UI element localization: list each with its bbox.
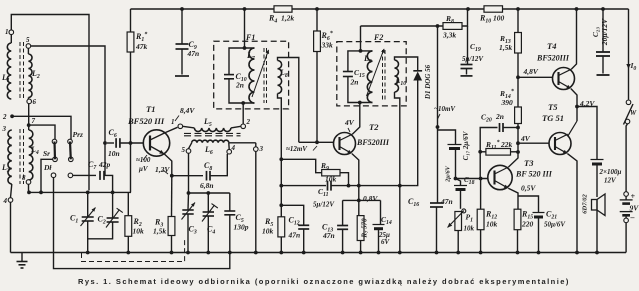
wire: C8 right up to pin 4	[210, 154, 227, 176]
svg-text:4,8V: 4,8V	[523, 67, 539, 76]
wire: T3 collector up to bias chain / emitter down to R15	[509, 155, 519, 167]
wire: T4 emitter to T5 collector	[571, 89, 577, 121]
svg-text:1: 1	[171, 118, 175, 126]
capacitor C12 47n	[281, 205, 303, 225]
wire: C13/C14 line	[343, 199, 381, 201]
resistor R12 10k	[479, 177, 483, 181]
svg-text:BF 520 III: BF 520 III	[515, 170, 553, 179]
svg-text:4: 4	[3, 197, 8, 205]
wire: L8 top out to T2 base	[278, 58, 299, 143]
svg-text:33k: 33k	[321, 41, 334, 50]
core L1/L2 (dashed)	[19, 42, 21, 100]
coil L5	[183, 126, 195, 128]
wire: C6 to T1 base	[120, 142, 143, 144]
svg-text:C₂₃: C₂₃	[591, 27, 600, 38]
tuning arrow F1	[252, 50, 269, 97]
svg-text:1,2k: 1,2k	[281, 14, 294, 23]
core L9/L10 (dashed)	[382, 50, 384, 101]
capacitor C9 47n	[181, 9, 183, 44]
capacitor C11 5u/12V (in AGC line)	[327, 181, 329, 191]
wire: osc tank line y=193	[189, 192, 230, 194]
wire: T5 emitter to ground	[567, 154, 577, 253]
svg-text:10k: 10k	[133, 227, 145, 236]
wire: F1 tank bottom to pin 2	[242, 103, 244, 124]
capacitor C19 5u/12V	[467, 26, 469, 65]
trimmer capacitor C2	[112, 192, 114, 218]
svg-text:130p: 130p	[234, 223, 249, 232]
svg-text:50μ/6V: 50μ/6V	[544, 221, 566, 229]
wire: right edge drop from rail	[628, 9, 630, 100]
terminal pin 4 (tap) of L6	[228, 143, 230, 150]
svg-text:47n: 47n	[322, 231, 335, 240]
current arrow I0	[626, 64, 630, 69]
wire: R8 node down into F2	[360, 26, 362, 51]
switch Prz lever	[69, 142, 72, 160]
svg-text:5μ/12V: 5μ/12V	[462, 55, 484, 63]
coil L6	[192, 140, 229, 143]
svg-text:C₁₇ 2μ/6V: C₁₇ 2μ/6V	[462, 130, 470, 160]
svg-text:6V: 6V	[381, 238, 391, 246]
resistor R9 10k	[281, 159, 321, 172]
svg-text:BF520III: BF520III	[536, 54, 570, 63]
variable capacitor C1	[87, 192, 89, 217]
svg-text:42p: 42p	[98, 160, 111, 169]
node: T3 base tap	[454, 177, 458, 181]
svg-text:F2: F2	[373, 33, 383, 42]
svg-text:3,3k: 3,3k	[442, 31, 456, 40]
wire: R6 bottom to T2 base wire	[316, 52, 318, 143]
wire: top-left horizontal to L1	[11, 15, 89, 191]
svg-text:TG 51: TG 51	[542, 113, 564, 123]
svg-text:≈12mV: ≈12mV	[286, 145, 308, 153]
svg-text:2×100μ: 2×100μ	[599, 168, 622, 176]
diode D1 DOG56	[413, 70, 422, 72]
wire: R8 right up to rail	[462, 9, 468, 26]
svg-text:~10mV: ~10mV	[434, 105, 456, 113]
svg-text:20μ/12V: 20μ/12V	[600, 18, 609, 46]
wire: Sr pole to tank line	[41, 159, 53, 192]
svg-text:Prz: Prz	[73, 130, 84, 139]
coil L1	[10, 35, 12, 44]
svg-text:Rys. 1. Schemat ideowy odbi: Rys. 1. Schemat ideowy odbiornika (oporn…	[78, 277, 570, 286]
node 7 + wire to Sr	[27, 123, 31, 127]
svg-text:10k: 10k	[486, 220, 498, 229]
terminal pin 2 of L5	[241, 124, 246, 129]
wire: Dl contact detour below ground rail	[54, 178, 230, 269]
svg-text:47n: 47n	[187, 49, 200, 58]
wire: T2 collector to F2	[352, 103, 360, 135]
svg-text:5: 5	[26, 36, 30, 44]
svg-text:2: 2	[246, 118, 251, 126]
tuning arrow F2	[367, 49, 385, 96]
resistor R3 1,5k	[168, 217, 175, 236]
wire: T3 base	[456, 178, 488, 180]
svg-text:220: 220	[521, 220, 534, 229]
wire: top supply rail	[131, 8, 275, 10]
resistor R4 1,2k (in top rail)	[274, 6, 292, 12]
svg-text:10n: 10n	[108, 149, 120, 158]
svg-text:10k: 10k	[325, 175, 337, 184]
svg-text:3: 3	[259, 145, 264, 153]
wire: C18 to potentiometer P1	[460, 190, 462, 209]
capacitor C6 10n	[107, 142, 114, 144]
core L5/L6 (dashed)	[184, 132, 241, 134]
svg-text:47n: 47n	[288, 231, 301, 240]
node: C6-left tee on x=105	[103, 141, 107, 145]
transistor T2 BF520III	[334, 133, 356, 155]
wire: 6 to 7	[28, 104, 30, 130]
wire: Prz bottom to C7	[73, 174, 96, 176]
terminal 1	[9, 30, 14, 35]
wire: speaker to ground	[596, 210, 598, 253]
svg-text:10k: 10k	[262, 227, 274, 236]
loudspeaker 6D7/02	[592, 200, 598, 211]
capacitor C8 6,8n	[206, 171, 208, 181]
svg-text:12V: 12V	[604, 177, 617, 185]
coil L7	[249, 48, 255, 103]
wire: emitter node to C8	[172, 175, 203, 177]
ground rail (bottom)	[11, 252, 627, 254]
capacitor C23 20u/12V	[602, 9, 604, 52]
svg-text:1,2V: 1,2V	[155, 165, 170, 174]
transistor T1 BF520III	[143, 130, 169, 156]
wire: T4 base	[518, 76, 553, 78]
capacitor C17 2u/6V	[448, 144, 462, 146]
wire: R8 feed line y=26	[361, 25, 444, 27]
potentiometer P1 10k	[462, 209, 466, 213]
svg-text:D1 DOG 56: D1 DOG 56	[424, 64, 432, 100]
resistor R7 570 (vertical, rotated label)	[357, 216, 364, 241]
svg-text:1,5k: 1,5k	[499, 43, 512, 52]
wire: L8 bottom down	[278, 94, 282, 217]
capacitor C20 2n	[480, 128, 497, 152]
capacitor C14 25u/6V	[380, 200, 382, 224]
svg-text:R₇ 570: R₇ 570	[361, 218, 369, 239]
wire: T5 base	[518, 142, 549, 144]
capacitor C5 130p	[229, 193, 231, 211]
filter block F2 (dashed box)	[337, 42, 406, 106]
svg-text:6,8n: 6,8n	[200, 181, 214, 190]
core L3/L4 (dashed)	[19, 129, 21, 184]
svg-text:T5: T5	[548, 102, 558, 112]
wire: L10 top to D1	[395, 57, 418, 70]
mechanical gang link (dashed)	[82, 240, 185, 262]
filter block F1 (dashed box)	[214, 41, 289, 109]
wire: chain down from R13	[517, 53, 519, 107]
coil L3	[8, 130, 12, 184]
capacitor C21 50u/6V	[518, 196, 539, 213]
terminal pin 3	[255, 143, 257, 147]
terminal pin 5 of L6	[189, 143, 192, 149]
svg-text:Sr: Sr	[43, 149, 50, 158]
svg-text:100: 100	[493, 14, 505, 23]
coil L8	[278, 61, 282, 94]
svg-text:4V: 4V	[344, 118, 355, 127]
svg-text:2n: 2n	[350, 78, 359, 87]
svg-text:2μ/6V: 2μ/6V	[445, 165, 452, 183]
terminal 8 + drop to tank line	[26, 180, 31, 185]
svg-text:5: 5	[182, 146, 186, 154]
wire: T1 emitter down	[164, 154, 172, 176]
svg-text:6D7/02: 6D7/02	[582, 194, 589, 214]
svg-text:W: W	[630, 109, 637, 117]
resistor R11* 22k	[478, 150, 482, 154]
AGC line y=185.6	[281, 185, 326, 187]
resistor R15 220	[514, 209, 521, 230]
capacitor C13 47n	[342, 200, 344, 225]
capacitor C15 2n	[343, 71, 353, 73]
switch W	[626, 100, 631, 105]
svg-text:2n: 2n	[235, 81, 244, 90]
wire: rail to F1 tank top	[244, 9, 246, 48]
svg-text:8: 8	[22, 174, 26, 182]
core L7/L8 (dashed)	[263, 48, 265, 103]
resistor R2 10k	[125, 216, 132, 237]
svg-text:BF520 III: BF520 III	[127, 116, 165, 126]
coil L9	[367, 51, 372, 103]
svg-text:1,5k: 1,5k	[153, 227, 166, 236]
terminal 5 and wire to x=105 drop	[26, 44, 31, 49]
transistor T4 BF520III	[553, 68, 575, 90]
svg-text:Dł: Dł	[43, 163, 52, 172]
capacitor 2x100u/12V (coupling)	[591, 159, 604, 161]
svg-text:T1: T1	[146, 104, 155, 114]
capacitor C7 42p	[99, 171, 101, 180]
wire: D1 down to AGC line	[416, 81, 418, 186]
wire: output node to coupling cap	[577, 107, 597, 160]
svg-text:2n: 2n	[495, 112, 504, 121]
wire: R1 bottom to base node and down to tank line	[130, 52, 132, 192]
wire: battery to ground rail	[625, 223, 627, 253]
wire: switch to battery	[626, 124, 627, 192]
capacitor C10 2n	[224, 74, 234, 76]
svg-text:47k: 47k	[135, 42, 148, 51]
svg-text:–: –	[630, 213, 635, 222]
svg-text:T2: T2	[369, 122, 379, 132]
coil L2	[27, 48, 29, 54]
svg-text:BF520III: BF520III	[356, 138, 390, 147]
wire: T4 collector to rail	[571, 9, 576, 69]
svg-text:4V: 4V	[520, 134, 531, 143]
wire: tee to C17/C18 chain	[438, 130, 456, 145]
node: rail junctions	[180, 7, 184, 11]
F2 tank loop	[348, 51, 373, 72]
svg-text:22k: 22k	[500, 140, 513, 149]
switch Sr lever	[53, 142, 56, 160]
resistor R8 3,3k	[443, 23, 462, 30]
wire: antenna tank line y=192.4	[29, 191, 132, 193]
resistor R6* 33k	[316, 9, 318, 31]
switch Prz : contacts	[68, 139, 73, 144]
battery 9V	[624, 192, 629, 197]
coil L10	[395, 60, 399, 92]
svg-text:μV: μV	[138, 165, 149, 173]
capacitor C16 47n	[430, 202, 443, 204]
svg-text:F1: F1	[245, 33, 255, 42]
svg-text:390: 390	[501, 98, 514, 107]
svg-text:2: 2	[2, 113, 7, 121]
svg-text:47n: 47n	[440, 197, 453, 206]
wire: T2 emitter down	[352, 154, 359, 216]
wire: node down to T3 base	[479, 152, 481, 179]
svg-text:T4: T4	[547, 41, 556, 51]
resistor R1* 47k	[130, 9, 132, 32]
terminal 2 + wire to Prz	[10, 114, 14, 118]
svg-text:4: 4	[231, 144, 236, 152]
ground symbol	[21, 253, 23, 262]
resistor R10 100 (in top rail)	[484, 6, 503, 12]
wire chain	[517, 124, 519, 156]
resistor R14* 390	[515, 107, 522, 124]
wire: T2 base	[299, 141, 334, 143]
svg-text:0,8V: 0,8V	[363, 194, 378, 203]
F1 tank loop	[229, 79, 255, 103]
trimmer capacitor C4	[207, 193, 209, 212]
wire: C7 right to C2 top	[104, 175, 113, 192]
resistor R13 1,5k	[517, 9, 519, 33]
wire: T1 collector to pin 1	[166, 127, 178, 132]
svg-text:10k: 10k	[464, 225, 475, 233]
capacitor C18 2u/6V	[456, 179, 461, 186]
svg-text:8,4V: 8,4V	[180, 106, 195, 115]
terminal 4 + wire down to ground rail	[11, 184, 12, 198]
svg-text:6: 6	[33, 98, 37, 106]
terminal pin 1 of L5	[178, 124, 183, 129]
svg-text:1: 1	[5, 28, 9, 36]
svg-text:3: 3	[2, 125, 7, 133]
coil L4	[29, 130, 33, 180]
resistor R5 10k	[278, 217, 285, 237]
detector output line x=437.5	[437, 26, 439, 203]
wire: pin 3 down to ground rail	[255, 151, 257, 252]
svg-text:0,5V: 0,5V	[521, 184, 536, 193]
svg-text:5μ/12V: 5μ/12V	[313, 201, 335, 209]
wire: L6 pin5 down to osc tank line	[188, 153, 190, 193]
node: L8-bottom line junctions	[279, 203, 283, 207]
terminal 6	[27, 99, 32, 104]
wire: L10 bottom to ground	[395, 92, 400, 253]
variable capacitor C3	[187, 193, 190, 210]
transistor T5 TG51	[549, 133, 571, 155]
svg-text:T3: T3	[524, 158, 534, 168]
transistor T3 BF520III	[488, 165, 512, 189]
switch Sr/Dl : contacts	[52, 139, 57, 144]
svg-text:7: 7	[32, 117, 36, 125]
